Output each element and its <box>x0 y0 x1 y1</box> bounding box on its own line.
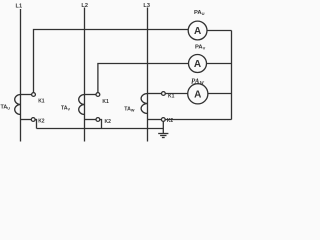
svg-text:K2: K2 <box>105 119 112 125</box>
current transformer TA3 secondary winding <box>141 94 147 114</box>
svg-text:K2: K2 <box>167 118 174 124</box>
terminal K2 of TA1 <box>31 118 35 122</box>
svg-text:A: A <box>194 90 201 101</box>
wire L3 phase conductor <box>147 8 149 142</box>
svg-text:L1: L1 <box>16 3 23 9</box>
wire TA3 K1 to ammeter PA3 <box>165 93 188 95</box>
svg-text:PAW: PAW <box>191 78 204 87</box>
wire TA1 K2 to common bottom bus <box>35 120 36 129</box>
svg-text:A: A <box>194 59 201 70</box>
wire TA2 K2 lead <box>85 119 97 121</box>
svg-text:PAU: PAU <box>194 10 205 16</box>
svg-text:TAV: TAV <box>61 105 71 111</box>
wire TA3 K1 lead <box>148 93 162 95</box>
wire TA1 K1 to ammeter PA1 (riser and top bus) <box>34 30 189 93</box>
wire TA3 K2 lead <box>148 119 162 121</box>
wire TA2 K2 to common bottom bus <box>100 120 102 129</box>
wire TA1 K2 lead <box>21 119 32 121</box>
wire ground stub <box>162 121 164 133</box>
wire common bottom bus (K2 net) <box>37 128 164 130</box>
svg-text:K1: K1 <box>38 99 45 105</box>
wire return line to terminal K2 of TA3 <box>165 119 231 121</box>
terminal K1 of TA1 <box>32 93 36 97</box>
wire common return line (right side) <box>231 31 233 120</box>
ammeter PA1 <box>188 21 207 40</box>
wire PA1 output to return line <box>207 30 232 32</box>
wire TA1 K1 lead <box>21 94 32 96</box>
svg-text:A: A <box>194 26 201 37</box>
wire L1 phase conductor <box>20 9 22 142</box>
terminal K1 of TA3 <box>162 92 166 96</box>
ammeter PA3 <box>188 84 208 104</box>
wire PA3 output to return line <box>208 93 232 95</box>
svg-text:PAV: PAV <box>195 45 206 51</box>
current transformer TA2 secondary winding <box>79 95 85 115</box>
svg-text:K1: K1 <box>168 93 175 99</box>
svg-text:TAU: TAU <box>1 104 11 110</box>
ammeter PA2 <box>189 55 207 73</box>
svg-text:K2: K2 <box>38 118 45 124</box>
ground <box>158 134 168 138</box>
terminal K2 of TA2 <box>96 118 100 122</box>
svg-text:L3: L3 <box>143 3 150 9</box>
svg-text:K1: K1 <box>102 99 109 105</box>
wire L2 phase conductor <box>84 8 86 142</box>
wire TA2 K1 lead <box>85 94 97 96</box>
current transformer TA1 secondary winding <box>15 95 21 115</box>
terminal K1 of TA2 <box>96 93 100 97</box>
svg-text:TAW: TAW <box>124 106 135 112</box>
terminal K2 of TA3 <box>161 118 165 122</box>
wire PA2 output to return line <box>207 63 232 65</box>
wire TA2 K1 to ammeter PA2 (riser and middle bus) <box>98 64 189 93</box>
